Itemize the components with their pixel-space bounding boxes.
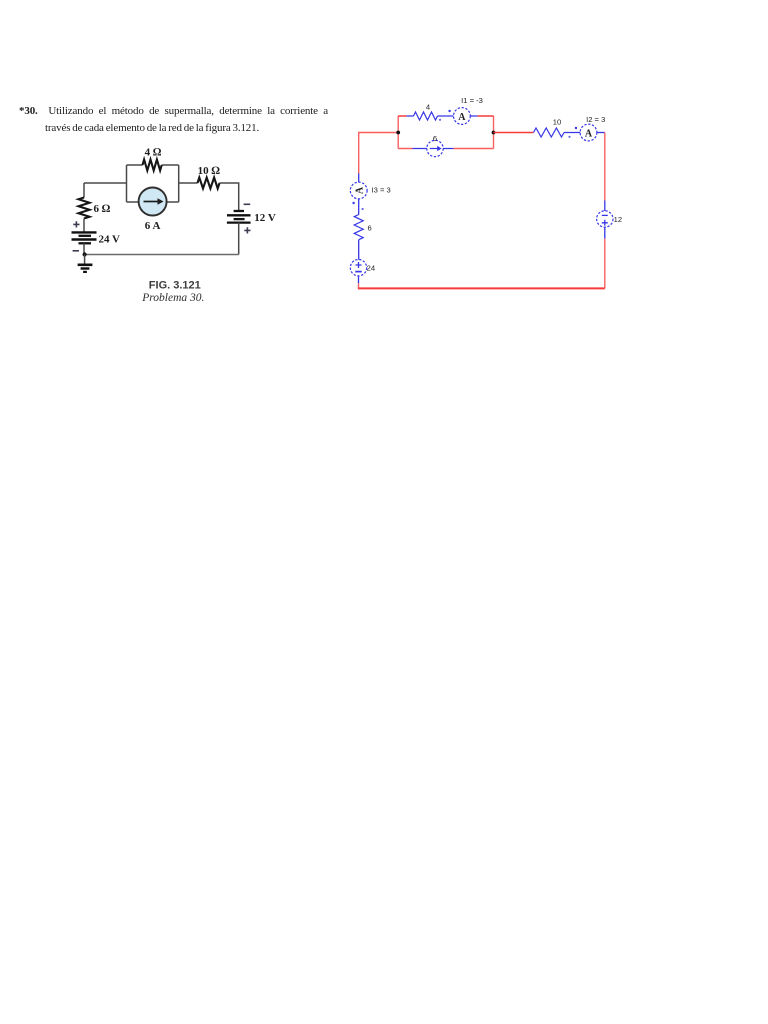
svg-text:10: 10 [553,117,561,126]
svg-text:12 V: 12 V [254,212,276,224]
minus sign of 12 V [244,203,251,205]
ground [84,255,86,265]
wire: box right edge [493,116,495,149]
wire: resistor 10 to ammeter I2 [564,132,580,134]
junction node left [396,131,400,135]
svg-text:12: 12 [614,215,622,224]
wire: battery to bottom junction [83,243,85,254]
svg-text:4: 4 [426,102,430,111]
resistor 6 ohm [79,198,90,219]
wire: ammeter I3 to resistor 6 [358,199,360,215]
svg-text:10 Ω: 10 Ω [198,165,221,177]
ammeter I2 [580,124,597,141]
svg-text:24: 24 [367,263,375,272]
polarity dot of ammeter I1 [448,110,450,112]
resistor 4 [414,112,438,120]
svg-text:24 V: 24 V [99,234,121,246]
polarity mark of ammeter I3 [362,208,364,210]
battery 12 V [227,211,251,223]
junction node at bottom-left [83,252,87,256]
wire: to resistor 10 [494,132,534,134]
polarity mark of ammeter I2 [568,136,570,138]
wire: supermesh box right edge [178,165,180,202]
wire: box bottom edge segments [127,201,179,203]
polarity mark of ammeter I1 [439,119,441,121]
wire: ammeter I2 to top-right corner [597,132,605,134]
ammeter I3 [350,182,367,199]
problem statement line 2 [45,122,259,134]
svg-text:A: A [585,128,593,139]
wire: supermesh box left edge [126,165,128,202]
svg-text:4 Ω: 4 Ω [145,147,162,159]
wire: top-left horizontal [84,182,127,184]
svg-text:I3 = 3: I3 = 3 [372,186,391,195]
wire: box left edge [397,116,399,149]
svg-text:Problema 30.: Problema 30. [141,292,204,304]
voltage source 24 [350,260,366,276]
wire: box top edge segments [127,164,179,166]
polarity dot of ammeter I2 [575,127,577,129]
svg-text:I2 = 3: I2 = 3 [586,115,605,124]
wire: resistor 6 to source 24 [358,240,360,260]
wire: bottom horizontal [358,287,605,289]
battery 24 V [72,232,97,243]
svg-text:6 A: 6 A [145,220,161,232]
problem statement line 1 [19,105,328,117]
minus sign of 24 V [73,250,79,252]
wire: bottom horizontal [85,254,239,256]
wire: box bottom edge red stubs [398,148,493,150]
wire: blue lead below source 24 [358,276,360,283]
resistor 10 [534,128,564,137]
resistor 10 ohm [198,178,220,189]
current source 6 [427,140,443,156]
wire: to 10 ohm [179,182,198,184]
resistor 6 [354,215,363,240]
svg-text:A: A [458,112,466,123]
voltage source 12 [597,211,613,227]
polarity dot of ammeter I3 [352,202,354,204]
svg-text:I1 = -3: I1 = -3 [461,96,483,105]
wire: right vertical lower [604,239,606,289]
wire: left vertical top [83,183,85,198]
wire: bottom-left corner [358,283,360,287]
wire: box bottom edge blue leads [413,148,454,150]
svg-text:A: A [354,186,365,194]
plus sign of 24 V [73,221,79,227]
wire: blue lead above source 12 [604,201,606,212]
wire: battery down, bottom wire [238,223,240,255]
wire: 10 ohm to right corner, down to battery [220,183,239,211]
svg-text:FIG. 3.121: FIG. 3.121 [149,280,201,292]
plus sign of 12 V [244,227,250,233]
wire: box top edge blue leads [407,115,478,117]
resistor 4 ohm [143,160,162,171]
wire: right vertical upper [604,133,606,201]
svg-text:6 Ω: 6 Ω [94,203,111,215]
junction node right [492,131,496,135]
wire: blue lead above ammeter I3 [358,174,360,183]
ammeter I1 [454,108,471,125]
current source 6 A [139,188,167,216]
wire: top-left corner red [359,133,399,174]
wire: resistor to battery [83,219,85,233]
wire: blue lead below source 12 [604,227,606,238]
svg-text:6: 6 [368,223,372,232]
svg-text:6: 6 [433,134,437,143]
wire: box top edge red stubs [398,115,493,117]
